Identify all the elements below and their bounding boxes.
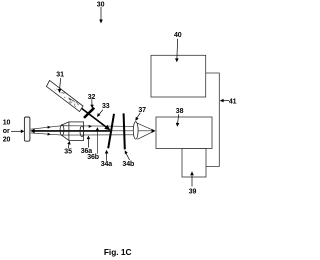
arrow 36a: [87, 136, 90, 148]
sample (10/20): [24, 117, 30, 141]
arrow 40: [175, 39, 179, 63]
node 30 arrow: [99, 7, 103, 24]
svg-text:33: 33: [102, 103, 110, 110]
svg-text:34a: 34a: [101, 161, 113, 168]
svg-text:Fig. 1C: Fig. 1C: [104, 247, 132, 257]
svg-text:38: 38: [176, 108, 184, 115]
svg-text:35: 35: [64, 148, 72, 155]
lens 32: [84, 108, 94, 118]
arrow 36b: [96, 127, 99, 154]
svg-text:34b: 34b: [122, 161, 134, 168]
svg-text:or: or: [3, 128, 10, 135]
svg-text:41: 41: [229, 99, 237, 106]
arrow 41: [220, 99, 229, 103]
svg-text:31: 31: [56, 72, 64, 79]
plate 34a: [108, 114, 114, 149]
arrow 37: [135, 113, 140, 121]
laser rod 31: [46, 80, 83, 111]
thick beam arrow toward sample: [30, 129, 110, 134]
svg-text:39: 39: [189, 189, 197, 196]
beam 33 from laser: [82, 108, 108, 128]
arrow 38: [176, 114, 180, 127]
arrow 34b: [125, 150, 130, 160]
ray arrowheads: [47, 125, 91, 136]
arrow 31: [58, 78, 62, 93]
arrow 10/20: [11, 130, 24, 134]
box 40: [151, 55, 206, 97]
converging rays into box 38: [137, 123, 154, 139]
svg-text:20: 20: [3, 137, 11, 144]
wire 40 to 41 to 39: [206, 73, 220, 166]
ray 36b upper: [31, 126, 134, 130]
svg-text:36b: 36b: [87, 154, 99, 161]
arrow 32: [90, 99, 93, 108]
box 39: [182, 149, 206, 178]
objective lens 35: [60, 122, 84, 140]
box 38: [156, 117, 212, 149]
lens 37: [133, 122, 138, 139]
svg-text:10: 10: [3, 120, 11, 127]
ray 36a lower: [31, 133, 134, 135]
junction arrowhead of beam 33: [104, 125, 110, 131]
detector input arrowhead: [152, 129, 156, 133]
arrow 34a: [105, 150, 109, 161]
svg-text:37: 37: [138, 107, 146, 114]
thin axis from mirror junction to detector: [110, 130, 152, 132]
arrow 35: [67, 141, 70, 148]
svg-text:40: 40: [174, 32, 182, 39]
arrow 33: [97, 110, 103, 117]
plate 34b: [124, 113, 125, 149]
arrow 39: [190, 171, 194, 186]
